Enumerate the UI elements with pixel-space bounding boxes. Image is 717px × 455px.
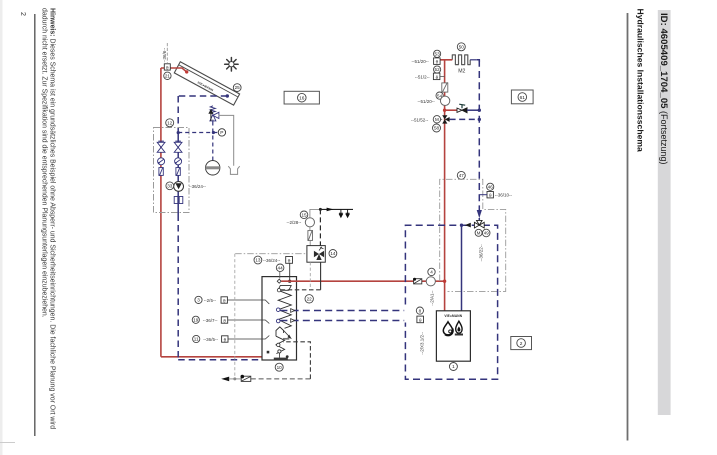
tank label circle 10: [275, 363, 283, 371]
right margin gray highlight strip: [658, 10, 671, 415]
tank top connection stub: [279, 272, 281, 279]
svg-text:--36/24--: --36/24--: [189, 184, 207, 189]
diverter valve 49: [474, 220, 484, 228]
shut-off valve on return line: [174, 141, 182, 152]
svg-text:21: 21: [165, 73, 171, 78]
node: collector flow connection: [185, 70, 188, 73]
node: collector return connection: [226, 94, 229, 97]
svg-text:11: 11: [194, 337, 199, 342]
svg-text:--36/7--: --36/7--: [203, 318, 218, 323]
svg-text:50: 50: [459, 45, 465, 50]
solar pump station enclosure box: [154, 128, 190, 213]
svg-text:2: 2: [520, 341, 523, 347]
three-way mixer valve: [442, 115, 449, 123]
lower heat exchanger pocket: [276, 327, 284, 336]
node: coil tap lower: [276, 319, 280, 323]
flame burner bar: [455, 334, 463, 336]
svg-text:--2/5--: --2/5--: [204, 298, 217, 303]
wire: solar return dashed vertical upper: [177, 96, 179, 133]
sensor 3 box: [221, 297, 227, 304]
svg-text:12: 12: [167, 121, 173, 126]
svg-text:Hydraulisches Installationssch: Hydraulisches Installationsschema: [636, 9, 646, 153]
flow sensor box -51/20-: [434, 58, 441, 65]
safety valve arrow: [209, 110, 212, 121]
boiler enclosure dashed box: [405, 225, 497, 379]
safety valve with spring: [210, 106, 219, 122]
node: lower coil tap: [277, 343, 280, 346]
circulation pump: [305, 218, 314, 227]
svg-text:33: 33: [167, 184, 173, 189]
drain funnel: [228, 166, 239, 174]
page corner mark bottom-left: [0, 442, 15, 444]
pump label circle 15: [300, 211, 308, 219]
svg-text:52: 52: [435, 67, 441, 72]
svg-text:46: 46: [488, 185, 494, 190]
svg-text:P: P: [220, 130, 223, 136]
mixer label circle 58: [433, 124, 441, 132]
sensor 19 box: [221, 317, 227, 324]
tank top label circle 44: [276, 264, 284, 272]
coil outlet diagonal with arrow: [284, 331, 291, 339]
wire: solar return dashed bottom horizontal to tank: [178, 359, 286, 361]
node: coil tap upper: [276, 308, 280, 312]
collector label circle 25: [233, 84, 241, 92]
radiator (heating circuit M2): [452, 55, 470, 65]
return sensor box: [487, 192, 493, 199]
svg-text:--51/52--: --51/52--: [411, 117, 429, 122]
sensor 11 lead: [228, 336, 269, 340]
svg-text:Hinweis: Dieses Schema ist ein: Hinweis: Dieses Schema ist ein grundsätz…: [48, 8, 55, 429]
radiator label circle 50: [457, 43, 465, 51]
boiler pump label circle 4: [428, 268, 435, 275]
sensor circle 3: [195, 296, 202, 303]
valve label circle 14: [329, 250, 337, 258]
sensor 13 lead down to pipe: [289, 263, 291, 281]
node: bypass junction red: [443, 109, 446, 112]
svg-text:61: 61: [520, 95, 526, 101]
svg-text:2: 2: [19, 12, 26, 16]
svg-text:10: 10: [277, 365, 283, 370]
node: mixer return junction: [478, 118, 481, 121]
flow direction arrow on box top: [465, 223, 471, 228]
svg-text:58: 58: [434, 126, 440, 131]
node: DHW flow junction: [288, 280, 291, 283]
legend box 2: [511, 337, 532, 350]
svg-text:dadurch nicht ersetzt. Zur Spe: dadurch nicht ersetzt. Zur Spezifikation…: [41, 8, 48, 318]
node: safety group junction: [212, 131, 215, 134]
boiler sensor circle 8: [416, 307, 423, 314]
thermostatic valve triangles: [314, 251, 324, 260]
sensor 13 box: [286, 257, 293, 265]
svg-text:53: 53: [435, 52, 441, 57]
svg-text:47: 47: [459, 173, 465, 178]
flow meter on return line: [176, 167, 180, 176]
valve 14 side stub gray: [309, 262, 311, 289]
pump riser: [310, 209, 321, 217]
check valve on return line: [175, 158, 182, 165]
svg-text:M2: M2: [458, 69, 465, 75]
flame icon: [456, 321, 462, 333]
svg-text:13: 13: [255, 258, 261, 263]
right margin vertical rule: [627, 13, 629, 441]
valve label circle 49: [482, 229, 490, 237]
drain valve: [241, 375, 251, 382]
bottom connection stub: [278, 353, 280, 358]
tap symbol 2: [346, 209, 350, 217]
node: drain junction: [233, 377, 236, 380]
page edge shading left: [0, 0, 3, 455]
svg-text:19: 19: [193, 318, 199, 323]
svg-text:ID: 4605409_1704_05 (Fortsetzu: ID: 4605409_1704_05 (Fortsetzung): [658, 13, 669, 165]
svg-text:--36/24--: --36/24--: [263, 258, 281, 263]
legend box 16: [284, 91, 319, 104]
membrane expansion vessel: [206, 161, 220, 175]
tank top connection diamond: [277, 279, 281, 283]
svg-text:49: 49: [484, 231, 489, 236]
wire: solar return dashed horizontal from collector: [178, 95, 227, 97]
flow setter on heating flow: [442, 82, 448, 92]
circulation label circle 22: [305, 295, 313, 303]
lower coil zigzag: [276, 336, 285, 353]
boiler sensor box: [417, 316, 424, 323]
svg-text:--51/2--: --51/2--: [415, 74, 430, 79]
collector sensor circle 21: [164, 72, 171, 79]
wire: circulation return dashed to tank: [280, 289, 321, 291]
tank base hatch: [274, 358, 288, 361]
wire: mixer to return dashed: [450, 118, 480, 120]
sensor circle 52: [434, 66, 441, 73]
water drop icon: [443, 322, 452, 335]
svg-text:--51/20--: --51/20--: [418, 99, 436, 104]
return sensor circle 46: [487, 183, 494, 190]
check valve at boiler pump: [413, 278, 422, 284]
interface line to DHW valve: [235, 253, 310, 255]
node: bottom connection circle: [278, 350, 281, 353]
wire: boiler return solid navy: [461, 225, 463, 311]
check valve on flow line: [158, 158, 165, 165]
solar coil (zigzag heat exchanger): [278, 290, 291, 328]
svg-text:--36/6--: --36/6--: [162, 47, 167, 62]
svg-text:25: 25: [235, 85, 241, 90]
wire: solar return dashed vertical lower: [177, 215, 179, 360]
wire: solar flow red vertical: [160, 68, 162, 357]
wire: tank flow dashed pipe lower: [280, 320, 404, 322]
tank top baffle: [278, 286, 291, 291]
svg-text:15: 15: [301, 213, 307, 218]
tank bottom node: [286, 355, 289, 358]
mixing valve box 14: [307, 246, 325, 263]
node: pump outlet junction: [443, 280, 446, 283]
node: junction on solar return: [177, 131, 180, 134]
interface boundary dash-dot: [440, 179, 506, 291]
svg-text:3: 3: [197, 298, 200, 303]
bypass balancing valve: [457, 104, 467, 113]
boiler body: [436, 311, 470, 361]
sensor circle 11: [193, 335, 200, 342]
tank sensor label circle 13: [254, 256, 262, 264]
wire: heating return dashed vertical: [478, 60, 480, 210]
wire: drain dashed to tank: [251, 378, 311, 380]
boiler label circle 1: [449, 363, 457, 371]
valve outlet solid drop: [320, 262, 322, 290]
svg-text:M: M: [477, 231, 481, 236]
svg-text:4: 4: [430, 270, 433, 275]
sensor 3 lead: [227, 300, 269, 304]
DHW draw-off line with arrow: [320, 208, 353, 210]
node: circulation tank connection: [277, 289, 280, 292]
wire: circulation dashed drop: [319, 209, 321, 249]
node: bypass junction navy: [478, 109, 481, 112]
wire: bypass red stub: [445, 109, 457, 111]
svg-text:--2/28--: --2/28--: [287, 220, 302, 225]
svg-text:22: 22: [307, 297, 313, 302]
solar coil inlet block: [267, 351, 270, 354]
tap symbol 1: [339, 209, 343, 217]
mixer label circle M: [433, 116, 440, 123]
svg-text:1: 1: [452, 364, 455, 369]
flow sensor circle 53: [434, 50, 441, 57]
svg-text:--36/10--: --36/10--: [495, 193, 513, 198]
node: gray junction at valve 14: [309, 253, 312, 256]
svg-text:8: 8: [419, 308, 422, 313]
svg-text:--36/22--: --36/22--: [478, 244, 483, 262]
node: boiler flow junction: [460, 224, 463, 227]
sensor circle 19: [192, 316, 199, 323]
valve motor circle M: [475, 229, 482, 236]
node: tank solar inlet: [266, 355, 269, 358]
wire: bypass navy stub: [467, 109, 479, 111]
wire: gauge connection dashed: [178, 132, 218, 134]
svg-text:--2/X3.1/2--: --2/X3.1/2--: [419, 332, 424, 355]
wire: solar return solid through pump group: [177, 133, 179, 215]
left margin horizontal rule (rotated page): [34, 14, 36, 436]
drain arrow: [221, 377, 229, 382]
wire: circulation down leg dashed: [283, 342, 310, 379]
label line -36/6-: [166, 43, 168, 63]
svg-text:--2/A1--: --2/A1--: [430, 290, 435, 306]
svg-text:M: M: [435, 117, 439, 122]
svg-text:16: 16: [299, 96, 305, 102]
solar station label circle 12: [166, 119, 174, 127]
boiler circuit pump: [426, 277, 435, 286]
solar collector panel: [174, 62, 239, 105]
flow restrictor below pump: [308, 230, 313, 241]
legend box 61: [511, 90, 533, 104]
heating circuit pump: [440, 96, 449, 105]
svg-text:--36/5--: --36/5--: [203, 337, 218, 342]
wire: DHW flow red line tank to boiler pump: [281, 280, 444, 282]
sensor 19 lead: [228, 320, 270, 324]
flow meter on flow line: [159, 167, 163, 176]
shut-off valve on flow line: [157, 141, 165, 152]
return arrow into valve 49: [477, 210, 482, 218]
tank wall stub arrows: [291, 309, 295, 323]
air separator (twin chamber): [174, 197, 183, 204]
sun symbol: [225, 58, 238, 72]
blow-off line to funnel: [219, 115, 234, 165]
svg-text:--51/20--: --51/20--: [412, 59, 430, 64]
svg-text:14: 14: [330, 251, 336, 256]
collector sensor box 21: [164, 64, 170, 70]
cold water drain line vertical: [234, 254, 236, 379]
wire: solar flow red bottom horizontal to tank: [161, 356, 268, 358]
pump label circle 33: [166, 182, 174, 190]
svg-text:44: 44: [278, 266, 284, 271]
node: DHW draw-off junction: [319, 208, 322, 211]
heating circuit boundary label 47: [457, 171, 465, 179]
solar circuit pump: [174, 182, 184, 192]
storage tank body: [262, 277, 297, 360]
svg-text:VIE●MANN: VIE●MANN: [444, 314, 462, 318]
pressure gauge P: [218, 129, 225, 137]
wire: tank flow dashed pipe upper: [280, 310, 404, 312]
solar flow pipe (red) collector to sensor: [161, 68, 187, 72]
sensor 11 box: [222, 336, 228, 343]
internal baffle bar: [283, 338, 289, 340]
pump label circle 54: [436, 92, 443, 99]
sensor box -51/2-: [433, 73, 440, 80]
drain line: [229, 378, 241, 380]
wire: membrane vessel connection dashed: [212, 122, 214, 161]
wire: heating flow red: [440, 60, 452, 311]
